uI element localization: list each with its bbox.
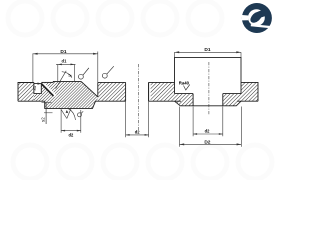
dimension D1 left figure — [33, 52, 99, 84]
dimension d2 middle hole — [126, 101, 149, 137]
dimension D2 right figure — [180, 107, 242, 147]
plate outline right end — [241, 82, 258, 101]
dimension d2 left figure — [61, 110, 81, 133]
boss flange outline — [45, 101, 96, 108]
surface roughness symbol on boss top — [79, 68, 89, 79]
svg-text:Ra40: Ra40 — [179, 81, 190, 86]
svg-text:d2: d2 — [205, 129, 211, 134]
dimension d1 left figure — [56, 64, 76, 81]
centre line right boss — [208, 62, 210, 115]
groove angle annotation — [56, 71, 72, 89]
right boss shank walls — [193, 94, 223, 106]
weld groove notch — [34, 83, 41, 94]
svg-text:d1: d1 — [62, 58, 68, 63]
plate outline left end — [18, 83, 34, 102]
boss top edge — [53, 81, 81, 82]
plate bottom edge far right — [237, 100, 258, 102]
plate hatched section under right boss head left — [175, 94, 194, 106]
boss right cone face — [81, 81, 98, 96]
plate hatched section right end — [241, 82, 258, 101]
dimension D1 right figure — [175, 52, 242, 57]
plate bottom edge right of flange — [96, 100, 126, 102]
plate bottom edge middle right — [149, 100, 181, 102]
plate top edge middle right — [149, 82, 175, 101]
plate hatched section right of boss — [98, 82, 126, 101]
weld left fusion line (thick diagonal) — [41, 84, 53, 96]
boss tip cone lines — [61, 109, 76, 121]
hole in plate right wall — [148, 82, 150, 101]
right boss head bottom edge — [175, 93, 242, 95]
svg-text:d2: d2 — [135, 130, 141, 135]
plate bottom edge left — [18, 100, 45, 102]
plate hatched section between hole and right boss — [151, 82, 175, 101]
dimension d2 right figure — [193, 107, 223, 137]
right boss head outline — [175, 57, 242, 93]
plate hatched section under right boss head right — [223, 94, 241, 106]
plate hatched section centre (weld boss area) — [34, 81, 98, 108]
s2 label with extension line — [45, 102, 47, 124]
svg-text:d2: d2 — [69, 133, 75, 138]
plate hatched section left end — [18, 83, 34, 102]
centre line middle hole — [138, 64, 140, 130]
svg-text:D2: D2 — [204, 139, 210, 145]
tip angle glyph — [78, 111, 84, 117]
company logo — [242, 3, 272, 33]
svg-text:D1: D1 — [60, 49, 66, 55]
plate top edge centre — [41, 81, 53, 83]
plate right hole wall — [97, 82, 99, 96]
boss seat outline — [175, 101, 242, 106]
svg-text:s2: s2 — [41, 117, 46, 122]
weld groove white gap — [44, 84, 56, 96]
svg-text:D1: D1 — [204, 47, 210, 53]
watermark pattern — [8, 1, 272, 179]
s1 thickness label — [38, 83, 42, 85]
hole in plate left wall — [125, 82, 127, 101]
surface roughness symbol on plate top — [102, 66, 113, 78]
plate top edge right of boss — [98, 81, 126, 83]
svg-text:s1: s1 — [32, 85, 37, 90]
